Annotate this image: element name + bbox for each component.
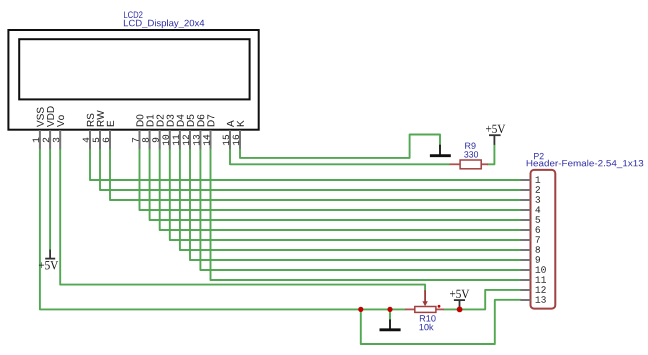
resistor R9 body <box>460 160 481 169</box>
wire D0 net: LCD pin7 to P2 pin4 <box>140 150 521 211</box>
LCD2 pin name D7 <box>207 115 214 127</box>
P2 pin number 6 <box>536 226 540 233</box>
P2 pin 12 stub <box>520 289 530 291</box>
LCD2 pin 11 D4 stub <box>179 130 181 150</box>
LCD2 pin name RS <box>87 114 94 127</box>
LCD2 pin 3 Vo stub <box>59 130 61 150</box>
LCD2 pin name K <box>237 120 244 126</box>
P2 pin number 10 <box>536 266 546 273</box>
LCD2 pin number 16 <box>233 135 240 145</box>
power +5V symbol at R9 <box>493 135 495 145</box>
LCD2 pin 14 D7 stub <box>210 130 212 150</box>
LCD2 pin name D2 <box>157 115 164 127</box>
LCD2 pin 9 D2 stub <box>159 130 161 150</box>
wire VDD net: LCD pin2 down to +5V <box>49 150 51 250</box>
LCD2 pin 7 D0 stub <box>139 130 141 150</box>
LCD2 pin 8 D1 stub <box>149 130 151 150</box>
wire GND branch stub <box>389 309 391 319</box>
LCD2 pin 6 E stub <box>109 130 111 150</box>
wire D5 net: LCD pin12 to P2 pin9 <box>190 150 521 261</box>
P2 pin 13 stub <box>520 299 530 301</box>
power +5V symbol at LCD VDD <box>49 250 51 259</box>
P2 pin number 7 <box>536 236 540 242</box>
LCD2 pin name D1 <box>147 115 154 127</box>
LCD2 pin number 4 <box>83 138 89 143</box>
potentiometer R10 left lead <box>405 308 415 310</box>
junction +5V at R10 <box>457 307 463 313</box>
P2 pin 9 stub <box>520 259 530 261</box>
P2 pin number 8 <box>536 246 541 253</box>
LCD2 pin 16 K stub <box>239 130 241 150</box>
LCD2 pin name D3 <box>167 115 174 127</box>
wire R10 pin2 to +5V junction and P2 pin12 <box>444 290 521 310</box>
wire D2 net: LCD pin9 to P2 pin6 <box>160 150 521 231</box>
P2 value Header-Female-2.54_1x13 <box>527 160 644 168</box>
wire Vo net: LCD pin3 to R10 wiper <box>60 150 425 291</box>
P2 pin number 12 <box>536 286 546 292</box>
LCD2 pin number 3 <box>53 138 60 143</box>
P2 pin 10 stub <box>520 269 530 271</box>
P2 pin 3 stub <box>520 199 530 201</box>
LCD module LCD2 outer body <box>8 30 258 130</box>
LCD2 pin name Vo <box>57 115 64 127</box>
LCD2 pin number 13 <box>193 135 200 145</box>
R10 value 10k <box>420 324 434 331</box>
junction GND symbol branch <box>387 307 392 312</box>
LCD2 pin name D6 <box>197 115 204 127</box>
R10 wiper arrow <box>424 290 426 301</box>
P2 pin 8 stub <box>520 249 530 251</box>
LCD2 value label LCD_Display_20x4 <box>124 20 204 29</box>
P2 pin number 9 <box>536 256 540 263</box>
P2 pin number 3 <box>536 196 541 203</box>
P2 pin 7 stub <box>520 239 530 241</box>
LCD2 screen inner rectangle <box>19 39 249 99</box>
LCD2 pin name VSS <box>37 107 44 127</box>
P2 pin number 5 <box>536 216 541 222</box>
LCD2 pin 4 RS stub <box>89 130 91 150</box>
ground symbol for K net <box>439 145 441 155</box>
P2 pin 1 stub <box>520 179 530 181</box>
LCD2 pin name D5 <box>187 115 194 127</box>
potentiometer R10 right lead <box>436 308 444 310</box>
wire D1 net: LCD pin8 to P2 pin5 <box>150 150 521 221</box>
LCD2 pin 12 D5 stub <box>189 130 191 150</box>
R9 value 330 <box>464 151 478 157</box>
LCD2 pin number 1 <box>33 138 39 143</box>
resistor R9 left lead <box>450 163 461 165</box>
ground symbol bottom <box>389 320 391 329</box>
wire VSS net: LCD pin1 down and right to R10 pin1 <box>40 150 405 310</box>
LCD2 pin name E <box>107 121 114 126</box>
LCD2 pin number 5 <box>93 138 99 143</box>
P2 pin number 13 <box>536 296 546 303</box>
LCD2 pin 15 A stub <box>229 130 231 150</box>
wire GND branch to P2 pin13 <box>361 300 521 344</box>
LCD2 pin name VDD <box>47 106 54 127</box>
P2 pin 6 stub <box>520 229 530 231</box>
wire A net: LCD pin15 to R9 <box>230 150 450 165</box>
P2 pin 11 stub <box>520 279 530 281</box>
P2 pin number 4 <box>535 206 540 212</box>
P2 pin number 2 <box>536 186 540 192</box>
LCD2 pin number 8 <box>142 138 149 143</box>
R10 reference label <box>420 315 436 321</box>
potentiometer R10 body <box>415 307 436 313</box>
LCD2 pin name D0 <box>136 115 143 127</box>
LCD2 pin number 2 <box>43 138 49 142</box>
LCD2 pin number 11 <box>173 135 179 145</box>
wire RS net: LCD pin4 to P2 pin1 <box>90 150 521 181</box>
LCD2 pin number 9 <box>152 138 159 142</box>
P2 pin number 1 <box>536 176 541 182</box>
power +5V symbol at R10 <box>459 300 461 309</box>
R9 reference label <box>465 143 475 149</box>
LCD2 pin name RW <box>97 110 104 126</box>
wire K net: LCD pin16 to ground <box>240 135 440 158</box>
wire E net: LCD pin6 to P2 pin3 <box>110 150 521 201</box>
wire D3 net: LCD pin10 to P2 pin7 <box>170 150 521 241</box>
P2 pin 4 stub <box>520 209 530 211</box>
LCD2 pin 2 VDD stub <box>49 130 51 150</box>
LCD2 pin 10 D3 stub <box>169 130 171 150</box>
wire D6 net: LCD pin13 to P2 pin10 <box>200 150 520 271</box>
junction VSS/GND branch <box>358 307 363 312</box>
LCD2 pin 13 D6 stub <box>199 130 201 150</box>
P2 reference label <box>534 153 544 159</box>
P2 pin number 11 <box>536 276 546 282</box>
connector P2 body <box>531 170 556 309</box>
LCD2 pin name A <box>227 120 234 127</box>
LCD2 reference label <box>124 11 143 18</box>
LCD2 pin 1 VSS stub <box>39 130 41 150</box>
resistor R9 right lead <box>481 163 488 165</box>
LCD2 pin number 12 <box>183 135 189 145</box>
P2 pin 5 stub <box>520 219 530 221</box>
R10 pin3 marker dot <box>438 305 441 308</box>
wire RW net: LCD pin5 to P2 pin2 <box>100 150 521 191</box>
LCD2 pin number 6 <box>103 138 110 142</box>
P2 pin 2 stub <box>520 189 530 191</box>
LCD2 pin 5 RW stub <box>99 130 101 150</box>
LCD2 pin number 10 <box>162 135 169 145</box>
wire R9 to +5V riser <box>487 145 494 165</box>
wire D4 net: LCD pin11 to P2 pin8 <box>180 150 521 251</box>
LCD2 pin name D4 <box>177 115 184 127</box>
wire D7 net: LCD pin14 to P2 pin11 <box>211 150 521 281</box>
LCD2 pin number 15 <box>223 135 229 145</box>
LCD2 pin number 7 <box>132 138 138 142</box>
LCD2 pin number 14 <box>203 135 209 145</box>
